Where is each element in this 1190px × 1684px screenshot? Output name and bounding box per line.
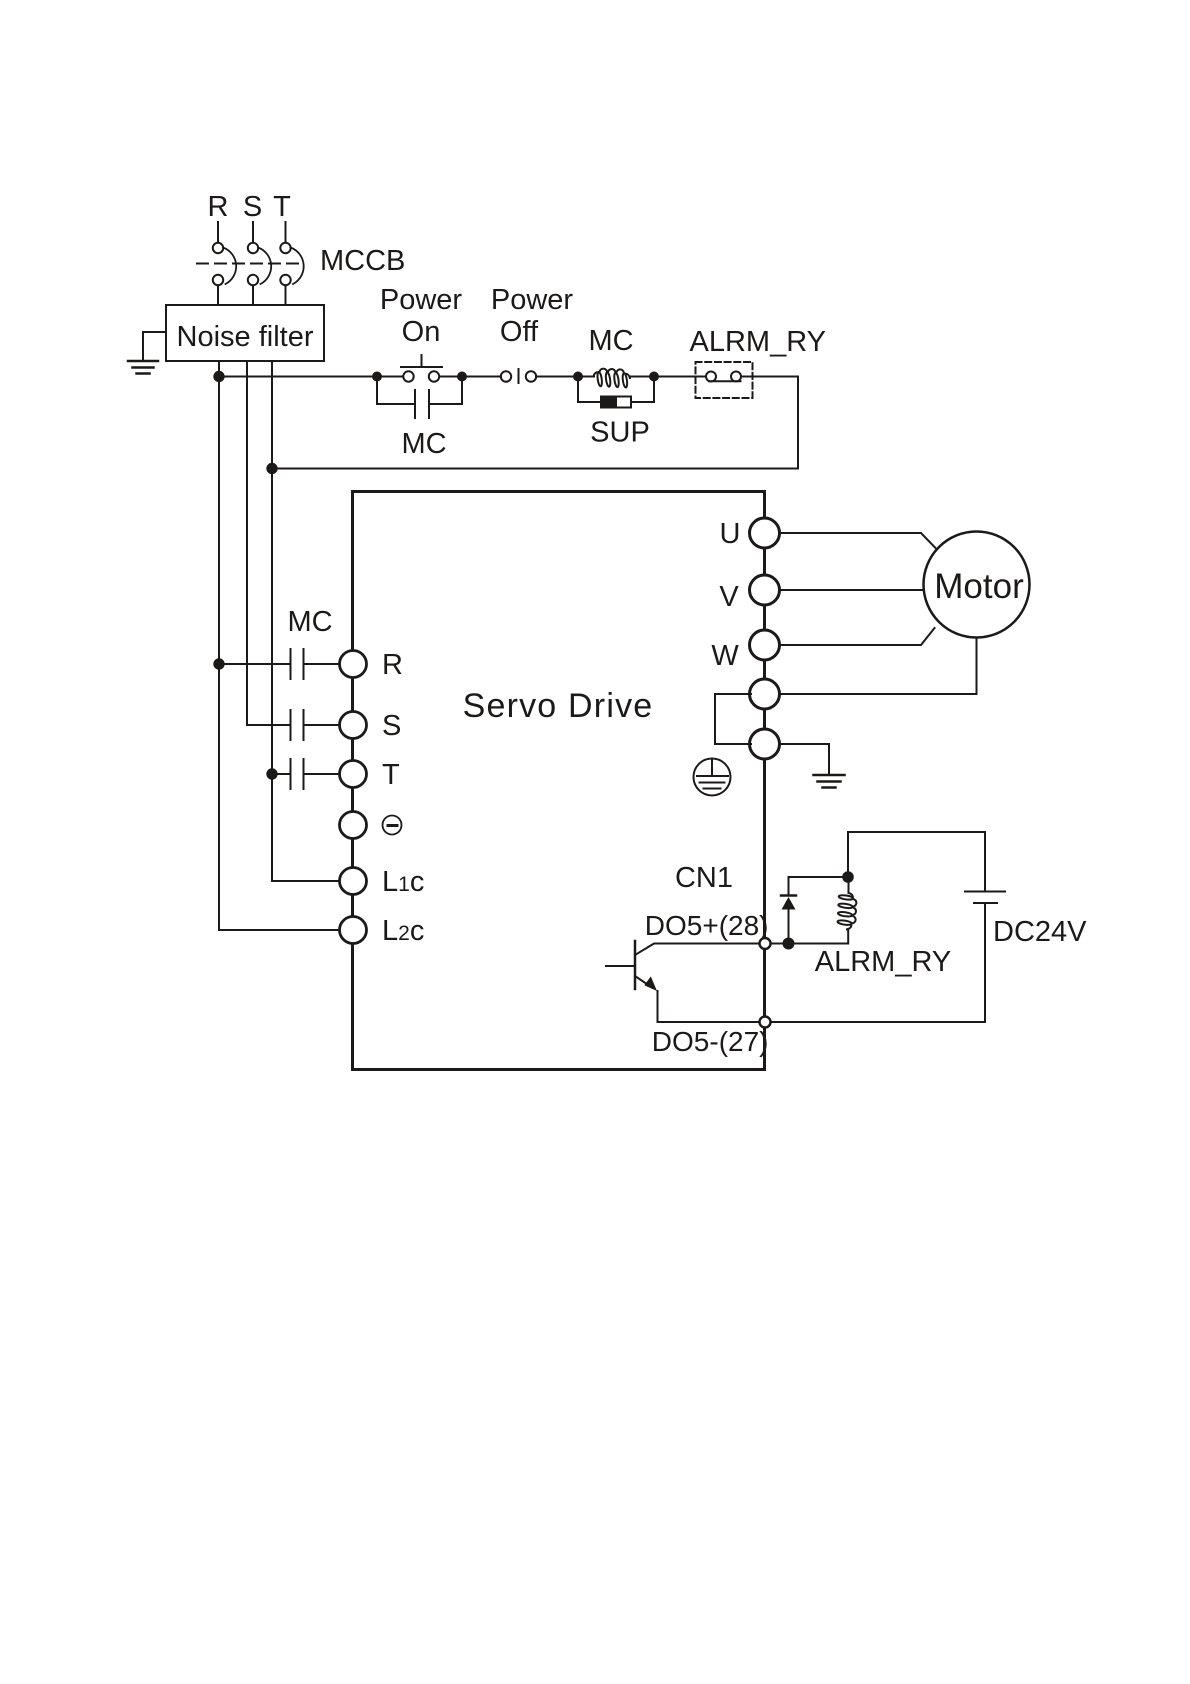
- ground earth symbol at motor frame: [814, 775, 845, 788]
- terminal T: [340, 761, 367, 788]
- svg-text:W: W: [711, 640, 739, 672]
- junction dot coil top: [842, 871, 854, 883]
- svg-text:DC24V: DC24V: [993, 916, 1087, 948]
- servo drive box: [353, 492, 765, 1070]
- svg-text:Off: Off: [500, 316, 539, 348]
- svg-text:On: On: [402, 316, 441, 348]
- svg-text:T: T: [273, 191, 291, 223]
- terminal R: [340, 651, 367, 678]
- wire motor return: [780, 638, 977, 695]
- wire diode to coil top: [789, 876, 849, 878]
- wire V to motor: [780, 589, 924, 591]
- svg-text:CN1: CN1: [675, 862, 733, 894]
- wire T lead-in: [285, 222, 287, 243]
- protective earth symbol: [694, 759, 731, 796]
- wire phase S vertical: [246, 361, 248, 725]
- relay contact ALRM_RY circles: [706, 372, 741, 382]
- pushbutton Power Off: [501, 369, 536, 383]
- svg-text:V: V: [719, 581, 739, 613]
- junction dot R control tap: [213, 371, 224, 382]
- contact MC main pole S: [247, 710, 341, 740]
- terminal U: [750, 518, 780, 548]
- circuit breaker MCCB pole R: [213, 243, 236, 285]
- svg-text:Power: Power: [380, 284, 463, 316]
- wire battery to DO5-: [771, 904, 985, 1023]
- junction dot DO5+ branch: [783, 938, 795, 950]
- svg-text:U: U: [720, 518, 741, 550]
- svg-text:T: T: [382, 759, 400, 791]
- junction dot Power On left: [372, 372, 382, 382]
- wire Power Off to MC coil: [536, 376, 594, 378]
- wire phase R vertical: [218, 361, 220, 930]
- wire T breaker to noise filter: [285, 286, 287, 306]
- junction dot R contact tap: [213, 658, 224, 669]
- junction dot return to T line: [266, 463, 277, 474]
- wire terminal link 4 to 5: [715, 694, 751, 744]
- terminal W: [750, 630, 780, 660]
- diode D1 flyback: [781, 877, 796, 944]
- junction dot MC coil right: [649, 372, 659, 382]
- junction dot T contact tap: [266, 768, 277, 779]
- svg-text:MC: MC: [401, 428, 446, 460]
- relay contact ALRM_RY dashed box: [696, 362, 753, 398]
- svg-text:MC: MC: [287, 606, 332, 638]
- wire MC coil to ALRM_RY contact: [630, 376, 707, 378]
- wire T line to L1c: [272, 774, 341, 881]
- wire R line to L2c: [219, 664, 341, 930]
- surge suppressor SUP branch: [578, 377, 654, 408]
- ground earth symbol at noise filter: [128, 361, 158, 374]
- wire U to motor: [780, 533, 936, 548]
- svg-text:R: R: [208, 191, 229, 223]
- terminal minus symbol: [383, 816, 402, 835]
- svg-text:R: R: [382, 649, 403, 681]
- wire control line to Power On: [219, 376, 403, 378]
- MCCB trip linkage dashed line: [197, 263, 299, 265]
- svg-text:ALRM_RY: ALRM_RY: [815, 946, 951, 978]
- svg-text:Noise filter: Noise filter: [177, 321, 314, 353]
- terminal DO5+ pin 28: [760, 938, 771, 949]
- svg-text:S: S: [243, 191, 262, 223]
- svg-text:MCCB: MCCB: [320, 245, 405, 277]
- circuit breaker MCCB pole S: [248, 243, 271, 285]
- wire ALRM_RY contact to return: [272, 377, 798, 469]
- wire ground terminal to earth: [780, 744, 829, 775]
- wire R lead-in: [217, 222, 219, 243]
- svg-text:ALRM_RY: ALRM_RY: [690, 326, 826, 358]
- terminal ground: [750, 729, 780, 759]
- wire W to motor: [780, 628, 935, 645]
- wire coil top to battery: [848, 832, 985, 891]
- terminal V: [750, 575, 780, 605]
- terminal L1c: [340, 868, 367, 895]
- svg-text:MC: MC: [588, 325, 633, 357]
- battery DC24V: [965, 892, 1005, 904]
- wire S lead-in: [252, 222, 254, 243]
- contact MC main pole R: [219, 649, 341, 679]
- wire noise filter to earth: [143, 332, 166, 360]
- contact MC main pole T: [272, 759, 341, 789]
- terminal S: [340, 712, 367, 739]
- svg-text:Servo Drive: Servo Drive: [463, 687, 654, 725]
- noise filter box: [166, 305, 324, 361]
- wire Power On to Power Off: [440, 376, 502, 378]
- wire R breaker to noise filter: [217, 286, 219, 306]
- transistor Q1 output: [606, 941, 759, 1022]
- terminal DO5- pin 27: [760, 1017, 771, 1028]
- circuit breaker MCCB pole T: [280, 243, 303, 285]
- terminal minus: [340, 812, 367, 839]
- svg-text:Motor: Motor: [934, 567, 1024, 606]
- terminal L2c: [340, 917, 367, 944]
- junction dot Power On right: [457, 372, 467, 382]
- svg-text:DO5+(28): DO5+(28): [645, 910, 769, 941]
- svg-text:SUP: SUP: [590, 417, 650, 449]
- motor M1: [924, 532, 1030, 638]
- pushbutton Power On: [401, 355, 442, 382]
- svg-text:Power: Power: [491, 284, 574, 316]
- wire S breaker to noise filter: [252, 286, 254, 306]
- relay coil ALRM_RY: [838, 877, 857, 944]
- svg-text:DO5-(27): DO5-(27): [652, 1026, 769, 1057]
- wire phase T vertical: [271, 361, 273, 881]
- coil MC contactor coil: [594, 369, 630, 388]
- wire DO5+ to relay: [771, 943, 848, 945]
- terminal motor return: [750, 679, 780, 709]
- contact MC holding branch: [377, 377, 462, 419]
- junction dot MC coil left: [573, 372, 583, 382]
- svg-text:S: S: [382, 710, 401, 742]
